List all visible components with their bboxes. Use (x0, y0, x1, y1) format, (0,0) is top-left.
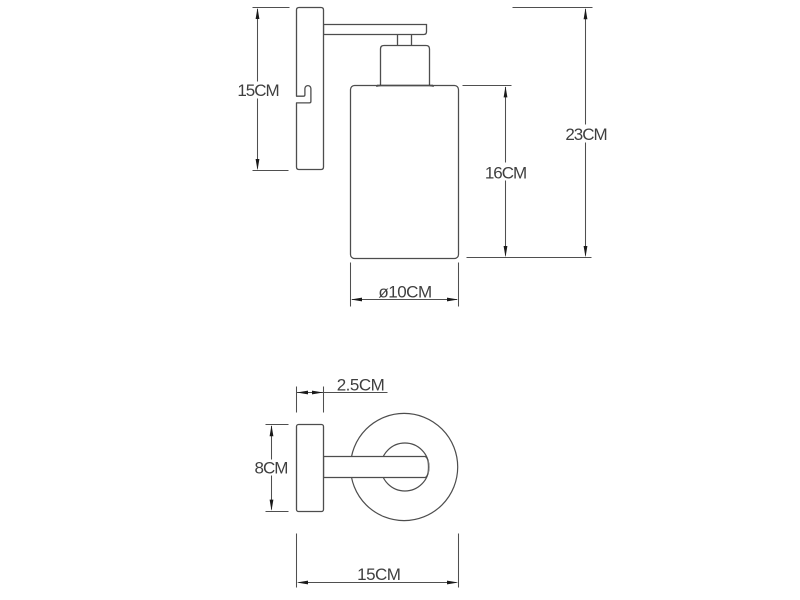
dimension 23CM arrow down (584, 246, 588, 257)
svg-text:2.5CM: 2.5CM (337, 376, 385, 395)
dimension 16CM arrow up (504, 86, 508, 97)
dimension 16CM arrow down (504, 246, 508, 257)
dimension ø10CM arrow left (351, 298, 362, 302)
dimension 15CM arrow down (256, 159, 260, 170)
dimension 15CM line (257, 9, 259, 169)
svg-text:15CM: 15CM (357, 565, 400, 584)
shared extension line bottom (16CM / 23CM) (467, 257, 592, 259)
dimension 8CM line (271, 426, 273, 510)
dimension 15CM (overall depth) line (299, 582, 457, 584)
dimension 23CM extension line top (513, 7, 593, 9)
dimension ø10CM extension line right (458, 263, 460, 307)
dimension 2.5CM extension line right (323, 387, 325, 413)
svg-text:16CM: 16CM (485, 164, 526, 183)
dimension ø10CM extension line left (350, 263, 352, 307)
dimension 23CM line (585, 9, 587, 256)
dimension ø10CM arrow right (447, 298, 458, 302)
lamp socket (side view) (376, 46, 434, 87)
socket neck (398, 35, 412, 46)
dimension 8CM arrow up (270, 425, 274, 436)
dimension 15CM (overall depth) arrow left (297, 581, 308, 585)
dimension 2.5CM extension line left (296, 387, 298, 413)
dimension 15CM arrow up (256, 8, 260, 19)
dimension 16CM extension line top (463, 85, 512, 87)
svg-text:ø10CM: ø10CM (378, 283, 431, 302)
svg-text:23CM: 23CM (565, 125, 606, 144)
dimension 8CM extension line top (266, 424, 289, 426)
cylindrical shade (side view) (351, 86, 459, 259)
dimension 16CM line (505, 87, 507, 256)
dimension 2.5CM arrow right (312, 391, 323, 395)
svg-text:8CM: 8CM (255, 459, 288, 478)
dimension 15CM (plate height) extension line top (253, 7, 290, 9)
mounting arm (side view) (324, 25, 427, 35)
dimension 15CM extension line bottom (253, 170, 289, 172)
dimension 15CM (overall depth) extension line right (458, 534, 460, 588)
dimension 2.5CM line (297, 392, 388, 394)
wall plate (side view) (297, 8, 324, 170)
mounting arm (plan view) (324, 457, 429, 478)
wall plate (plan view) (297, 425, 324, 512)
shade top circle (plan view) (351, 413, 458, 520)
dimension 8CM extension line bottom (266, 511, 289, 513)
dimension 8CM arrow down (270, 500, 274, 511)
dimension ø10CM line (352, 299, 457, 301)
dimension 15CM (overall depth) extension line left (296, 534, 298, 588)
socket circle sliver right of arm end (427, 461, 430, 474)
svg-text:15CM: 15CM (237, 81, 278, 100)
socket circle (plan view) (381, 443, 429, 491)
dimension 2.5CM arrow left (297, 391, 308, 395)
dimension 23CM arrow up (584, 8, 588, 19)
dimension 15CM (overall depth) arrow right (447, 581, 458, 585)
